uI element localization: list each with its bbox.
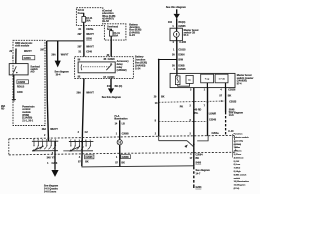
svg-text:S206: S206	[86, 38, 92, 41]
svg-text:C2320: C2320	[107, 76, 115, 79]
pin 57 / wire BK (lamp ground)	[115, 162, 125, 165]
wiper arm with arrow	[184, 141, 194, 148]
svg-text:C2023: C2023	[229, 100, 237, 103]
svg-text:C206: C206	[52, 162, 58, 165]
relay inner box	[78, 62, 115, 73]
svg-text:1: 1	[116, 156, 118, 159]
svg-text:C220a: C220a	[86, 28, 94, 31]
svg-text:Function: Function	[234, 133, 244, 136]
pin 1 / connector C2066 (boxed)	[116, 155, 130, 159]
wire label 297 WH/YT	[78, 33, 95, 36]
svg-text:30: 30	[172, 65, 175, 68]
svg-text:C2035: C2035	[178, 25, 186, 28]
svg-text:3: 3	[52, 152, 54, 155]
svg-text:selector switch: selector switch	[234, 136, 250, 139]
svg-text:See this diagram: See this diagram	[166, 6, 187, 9]
svg-text:G-52: G-52	[103, 20, 109, 23]
svg-text:1: 1	[173, 48, 175, 51]
svg-text:14-7: 14-7	[196, 173, 201, 176]
svg-text:switch: switch	[234, 177, 241, 180]
svg-text:28A: 28A	[42, 128, 47, 131]
svg-text:347: 347	[107, 85, 112, 88]
svg-text:D30H: D30H	[178, 53, 184, 56]
pin 30 / wire D30H	[172, 53, 185, 56]
svg-text:7: 7	[204, 105, 206, 108]
connector C2023	[229, 100, 237, 103]
illumination feed note 71-A	[114, 115, 128, 121]
bank 2 pin digits	[70, 140, 92, 142]
wire label 29A WH/YT (below relay)	[77, 91, 95, 94]
svg-text:C2345: C2345	[209, 119, 217, 122]
connector C2044 (near wire end)	[212, 132, 220, 135]
svg-text:6: 6	[190, 119, 192, 122]
splice S206 horizontal wire	[47, 40, 84, 42]
splice S040 / see diagram 14-5	[229, 108, 243, 117]
wire: branch to other diagram (mid-left)	[57, 41, 59, 61]
svg-text:297: 297	[78, 45, 83, 48]
wire label 348 YT	[47, 157, 56, 160]
row2 lower pins: 2	[155, 132, 192, 135]
svg-text:BK: BK	[121, 162, 125, 165]
label: master boost switch (right)	[237, 74, 254, 85]
splice to master switch feed branch	[158, 59, 177, 61]
svg-text:31: 31	[78, 51, 81, 54]
far-left wire tag	[1, 105, 6, 111]
svg-text:BK: BK	[228, 95, 232, 98]
switch bank 2	[63, 141, 93, 152]
wire label 57 BK	[78, 161, 89, 164]
svg-text:29A: 29A	[51, 53, 56, 56]
ground bus horizontal wire	[82, 166, 194, 167]
pin 1 / connector C206	[47, 162, 58, 165]
label: Battery Junction Box (BJB)	[129, 24, 141, 37]
svg-text:RD: RD	[1, 108, 5, 110]
switch assembly box (bottom, dashed enclosure)	[9, 135, 236, 155]
ganged switch dashed row 1	[159, 101, 226, 103]
pin 57 / wire BK	[219, 95, 231, 98]
relay pins top: 86, 85/C2320	[78, 58, 116, 62]
wire label 29A WH/YT	[51, 53, 69, 56]
svg-text:1: 1	[47, 162, 49, 165]
svg-text:5) Off: 5) Off	[234, 161, 240, 163]
svg-text:57: 57	[219, 95, 222, 98]
svg-text:G-24: G-24	[129, 34, 135, 37]
svg-text:1: 1	[116, 132, 118, 135]
wire: branch down left side of master switch	[158, 60, 160, 137]
fuse F1.11 50A	[109, 29, 120, 40]
svg-text:WH/YT: WH/YT	[24, 50, 32, 53]
pin 29 / wire label WH/YT (module)	[9, 50, 32, 53]
switch bank 1	[32, 141, 58, 151]
pin 2 at bottom box entry	[44, 134, 46, 137]
svg-text:1: 1	[174, 68, 176, 71]
wire: master switch pin 4 down (solid then dashed)	[225, 88, 227, 136]
svg-text:17: 17	[190, 157, 193, 160]
svg-text:WH/YT: WH/YT	[50, 128, 58, 131]
wire stub: cell B to box bottom	[206, 83, 208, 88]
wire: CJB fuse output down to relay box	[83, 25, 85, 56]
note: see diagram 14-7	[196, 169, 210, 175]
svg-text:57-4: 57-4	[184, 34, 189, 37]
connector end tick	[12, 100, 16, 101]
svg-text:29A: 29A	[77, 91, 82, 94]
wire: switch output down	[13, 75, 15, 100]
svg-text:WH/YT: WH/YT	[86, 45, 94, 48]
label: Central Junction Box (CJB)	[103, 10, 115, 23]
wire: lamp to ground bus	[119, 145, 121, 167]
legend bracket	[232, 134, 234, 158]
svg-text:C2026: C2026	[228, 89, 236, 92]
svg-text:10) Illumination: 10) Illumination	[234, 180, 250, 183]
label: accessory delay relay (inside box)	[117, 60, 130, 72]
illumination lamp	[117, 140, 122, 145]
row2 pins: 8, 6	[155, 119, 192, 122]
pin 297 (module feed)	[40, 48, 45, 51]
svg-text:2) Norm: 2) Norm	[234, 150, 242, 153]
svg-text:57: 57	[78, 161, 81, 164]
svg-text:7 up: 7 up	[205, 79, 210, 81]
svg-text:1: 1	[172, 25, 174, 28]
relay box (dashed enclosure)	[75, 57, 134, 79]
label: circuit breaker	[184, 29, 199, 37]
wire label 297 WH/YT (below splice)	[78, 45, 95, 48]
svg-text:30A: 30A	[86, 20, 91, 23]
pins under master switch box	[190, 88, 222, 91]
pin 4 / connector C2065 (boxed) below switch box	[79, 155, 94, 159]
svg-text:Illumination: Illumination	[114, 118, 128, 121]
svg-text:29: 29	[154, 95, 157, 98]
master boost switch box	[170, 73, 235, 87]
pin 31 / connector C240	[78, 51, 92, 54]
wire labels LGN/R, C2345	[209, 113, 217, 122]
wire label B/W	[178, 59, 183, 62]
svg-text:C2: C2	[85, 131, 89, 134]
wire stub: cell C to box bottom	[225, 83, 227, 88]
svg-text:57: 57	[115, 162, 118, 165]
ground G204	[196, 186, 203, 189]
svg-text:G204: G204	[196, 186, 203, 189]
svg-text:C2064: C2064	[196, 153, 204, 156]
pin 2 / connector C2 (entry to switch box)	[78, 131, 89, 134]
pin 31 / connector C220a	[78, 28, 94, 31]
arrow: see this diagram (relay out)	[102, 88, 121, 99]
connector C2204 (boxed)	[12, 56, 35, 60]
svg-text:See this diagram: See this diagram	[102, 96, 121, 99]
svg-text:WH/YT: WH/YT	[86, 91, 94, 94]
circuit breaker CB	[170, 28, 182, 41]
wire: relay coil output down to switch assembly	[82, 78, 84, 166]
svg-text:3) Floor: 3) Floor	[234, 153, 242, 156]
connector C2 label	[17, 91, 23, 94]
svg-text:2: 2	[78, 131, 80, 134]
legend: switch positions list	[234, 133, 250, 190]
svg-text:297: 297	[40, 48, 45, 51]
svg-text:PK: PK	[180, 106, 184, 109]
svg-text:3: 3	[190, 88, 192, 91]
svg-text:C2065: C2065	[122, 132, 130, 135]
svg-text:LB: LB	[122, 122, 125, 125]
switch cell B	[201, 74, 214, 83]
relay pins bottom: 85, 57/C2320	[78, 75, 116, 78]
pin 1 / connector C2065 (lamp)	[116, 132, 130, 135]
svg-text:4: 4	[220, 89, 222, 92]
svg-text:4: 4	[173, 41, 175, 44]
svg-text:1) Max: 1) Max	[234, 147, 241, 149]
wire: BJB fuse output down to relay box	[110, 40, 112, 57]
svg-text:C240: C240	[86, 51, 92, 54]
svg-text:10: 10	[155, 102, 158, 105]
svg-text:YT: YT	[52, 157, 56, 160]
bank 1 pin digits	[33, 139, 57, 142]
svg-text:57-4: 57-4	[237, 82, 242, 85]
svg-text:D30B: D30B	[178, 65, 184, 68]
svg-text:2: 2	[12, 57, 14, 60]
svg-text:C1015: C1015	[178, 48, 186, 51]
svg-text:1: 1	[190, 153, 192, 156]
fuse F2.11 30A	[82, 13, 93, 26]
svg-text:BK (O): BK (O)	[115, 85, 123, 88]
pin 1 / connector C2064	[190, 153, 203, 157]
wire label 104 BK(O)	[168, 21, 186, 24]
connector C2026	[228, 89, 236, 92]
svg-text:104: 104	[168, 21, 173, 24]
wire: master switch pin 1 down	[207, 88, 209, 136]
pin 3 below box	[52, 152, 54, 155]
wire labels PK, 40 RD	[180, 106, 202, 115]
wire: module feed drop from splice	[47, 41, 49, 141]
wire: into overhead switch	[15, 49, 17, 64]
svg-text:C204a: C204a	[212, 132, 220, 135]
svg-text:na: na	[188, 80, 191, 82]
svg-text:30-4: 30-4	[56, 73, 61, 76]
connector C2206 (boxed)	[17, 80, 29, 84]
overhead switch box	[9, 64, 28, 75]
svg-text:1: 1	[204, 88, 206, 91]
svg-text:S450: S450	[196, 162, 202, 165]
wiper linkage: left horizontal	[159, 136, 187, 141]
svg-text:297: 297	[78, 33, 83, 36]
pin 1 / connector C2025	[174, 68, 187, 71]
connector C2044 label	[228, 130, 234, 133]
svg-text:P/L: P/L	[195, 112, 199, 115]
wire: into circuit breaker	[176, 18, 178, 28]
svg-text:RD/LB: RD/LB	[17, 86, 25, 89]
wire: CB to master boost switch	[176, 41, 178, 74]
module name text block	[22, 105, 35, 122]
svg-text:LGN/R: LGN/R	[209, 113, 217, 116]
row1 pins: 10, 2, 7, 1	[155, 100, 223, 108]
svg-text:30: 30	[172, 53, 175, 56]
pin 14 / wire LB	[115, 122, 125, 125]
svg-text:(C2044): (C2044)	[234, 143, 242, 146]
svg-text:86: 86	[78, 59, 81, 62]
svg-text:6) Low: 6) Low	[234, 164, 241, 166]
ganged switch dashed row 2	[159, 121, 208, 123]
svg-text:G-24: G-24	[135, 67, 141, 70]
label: Battery Junction Box (right of relay box)	[135, 56, 147, 71]
svg-text:29: 29	[9, 50, 12, 53]
svg-text:9) Blk switch: 9) Blk switch	[234, 173, 247, 176]
svg-text:8: 8	[155, 119, 157, 122]
svg-text:C-10: C-10	[228, 130, 234, 133]
pin 29 / wire BK (branch)	[154, 95, 165, 98]
svg-text:(57-4): (57-4)	[234, 187, 240, 190]
pin 17 / wire BK	[190, 157, 200, 160]
svg-text:C240: C240	[17, 91, 23, 94]
arrow: see diagram 30-4	[55, 61, 69, 77]
switch cell A	[186, 75, 193, 83]
wire: master switch pin 3 down to wiper	[193, 88, 195, 153]
svg-text:1 7 dn: 1 7 dn	[219, 79, 226, 81]
svg-text:8) High: 8) High	[234, 171, 242, 173]
module box left (dashed enclosure)	[13, 40, 45, 125]
wire: ground drop (bottom right)	[193, 153, 195, 189]
svg-text:4) Defrost: 4) Defrost	[234, 156, 244, 159]
pin 4 / connector C-205	[173, 41, 187, 44]
svg-text:C2320: C2320	[108, 58, 116, 61]
svg-text:BK: BK	[85, 161, 89, 164]
svg-text:C2025: C2025	[178, 68, 186, 71]
arrow: see diagram 14-3 / 14-5	[44, 170, 59, 194]
svg-text:assembly: assembly	[234, 140, 244, 142]
pin 1 / connector C2035	[172, 25, 186, 28]
svg-text:50A: 50A	[114, 35, 119, 38]
svg-text:WH/YT: WH/YT	[61, 53, 69, 56]
svg-text:28A: 28A	[1, 105, 6, 108]
svg-text:(14B192): (14B192)	[117, 69, 127, 72]
svg-text:B/W: B/W	[178, 59, 183, 62]
svg-text:2: 2	[190, 132, 192, 135]
svg-text:C2065: C2065	[85, 156, 93, 159]
svg-text:348: 348	[47, 157, 52, 160]
svg-text:7) Med: 7) Med	[234, 168, 241, 170]
svg-text:31: 31	[78, 28, 81, 31]
fuse F1.11 label (inside BJB)	[107, 25, 119, 31]
module title (2 lines)	[15, 42, 33, 48]
wiper linkage: right step	[197, 136, 208, 141]
junction box CJB (dashed enclosure)	[76, 8, 102, 26]
pin 30 / wire D30B	[172, 65, 185, 68]
svg-text:WH/YT: WH/YT	[86, 33, 94, 36]
svg-text:11) Diagram: 11) Diagram	[234, 184, 246, 187]
svg-text:14-5: 14-5	[229, 114, 234, 117]
svg-text:2: 2	[155, 132, 157, 135]
svg-text:85: 85	[104, 58, 107, 61]
svg-text:4: 4	[79, 156, 81, 159]
svg-text:21-1, 26-1: 21-1, 26-1	[22, 119, 34, 122]
svg-text:2: 2	[190, 105, 192, 108]
svg-text:C2066: C2066	[122, 156, 130, 159]
wire: illumination lamp feed	[119, 120, 121, 140]
svg-text:2: 2	[44, 134, 46, 137]
svg-text:A/D: A/D	[30, 71, 34, 74]
pin 1 / connector C1015	[173, 48, 186, 51]
wire label 28A WH/YT	[42, 128, 59, 131]
svg-text:BK: BK	[196, 157, 200, 160]
svg-text:14-5 Doors: 14-5 Doors	[44, 191, 57, 194]
svg-text:C2204: C2204	[24, 57, 32, 60]
svg-text:shift module: shift module	[15, 45, 30, 48]
label: overhead switch	[30, 65, 40, 73]
splice S450	[196, 162, 202, 165]
wire label 4RA RD/LB	[17, 86, 25, 89]
arrow in: see this diagram (top right)	[166, 6, 187, 19]
svg-text:14: 14	[115, 122, 118, 125]
junction box BJB (dashed enclosure)	[104, 24, 126, 40]
svg-text:C-205: C-205	[179, 41, 186, 44]
svg-text:BK: BK	[161, 95, 165, 98]
splice S206 label	[86, 38, 92, 41]
fuse F2.11 label (inside CJB)	[78, 9, 85, 15]
svg-text:BK(O): BK(O)	[178, 21, 185, 24]
svg-text:C2206: C2206	[18, 81, 26, 84]
wire: relay contact output to arrow	[110, 78, 112, 88]
switch cell C	[215, 74, 228, 83]
wire: bank1 output to see diagram arrow	[54, 141, 56, 170]
pin 30 at relay top	[107, 54, 110, 57]
wire label 347 BK(O)	[107, 85, 122, 88]
illumination lamp element	[175, 73, 189, 86]
